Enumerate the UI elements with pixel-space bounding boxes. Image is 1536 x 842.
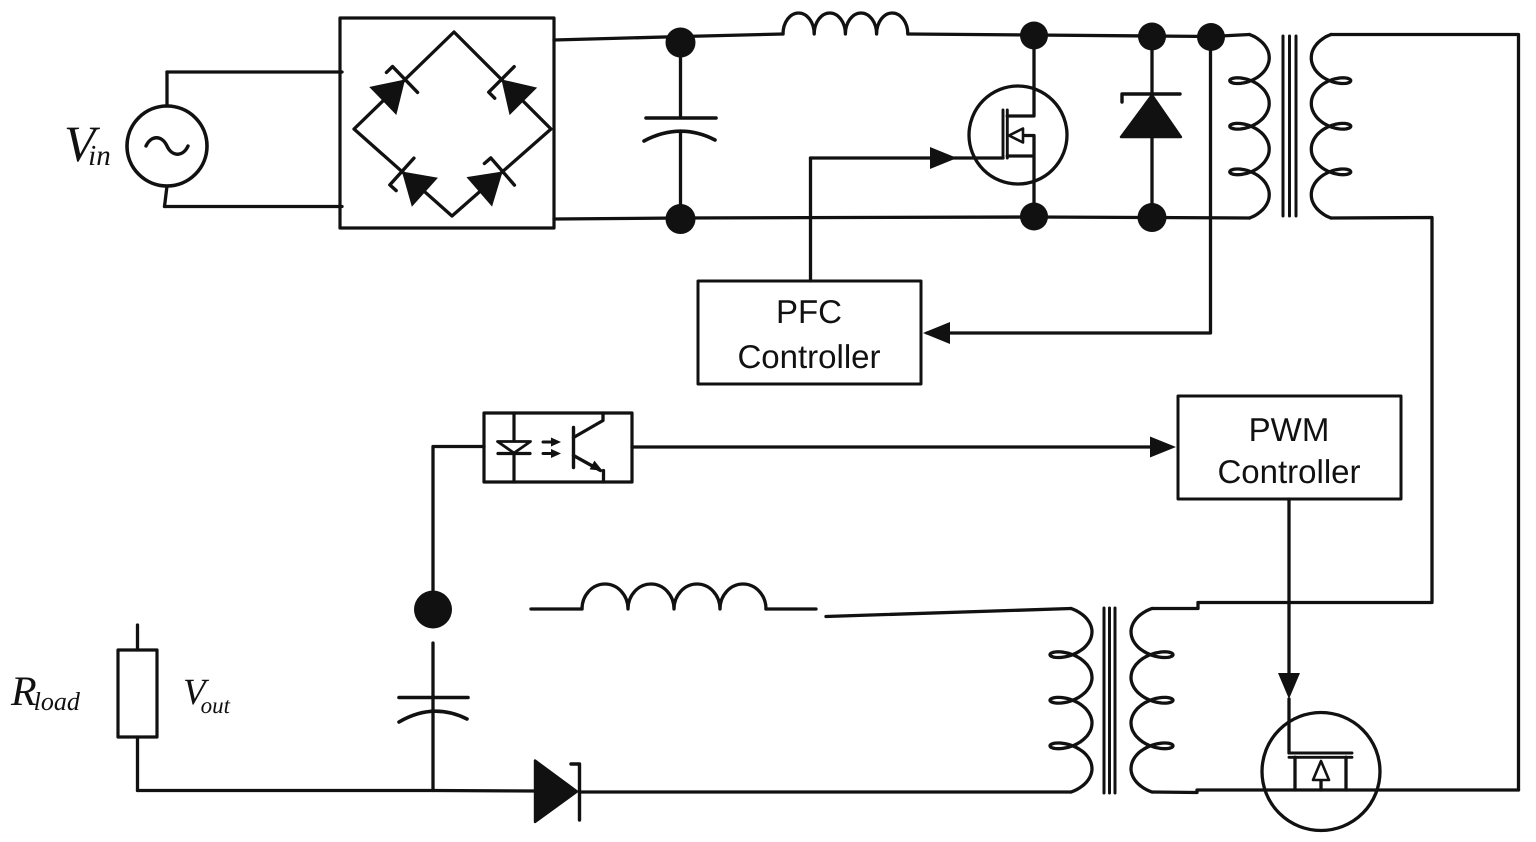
wire T1 secondary top to right edge xyxy=(1331,35,1519,791)
transformer T2 secondary winding xyxy=(1131,609,1173,793)
wire Vin to bridge bottom xyxy=(165,205,343,208)
wire node D to PFC input xyxy=(927,37,1211,334)
node H xyxy=(1138,203,1167,232)
wire bottom output rail xyxy=(138,789,537,793)
wire L1 to node B xyxy=(908,34,1034,35)
transformer T1 primary winding xyxy=(1230,35,1269,219)
arrow into PWM xyxy=(1150,437,1176,458)
svg-text:Controller: Controller xyxy=(1217,453,1360,490)
bridge diode D2 xyxy=(488,66,537,115)
node F xyxy=(666,204,696,234)
wire node C to node D xyxy=(1152,34,1211,38)
node E output xyxy=(414,591,452,629)
transformer T1 secondary winding xyxy=(1311,35,1351,219)
transformer T2 primary winding xyxy=(1050,609,1092,793)
wire sloped to T2 primary xyxy=(826,609,1071,617)
wire PWM to Q2 gate xyxy=(1287,499,1290,753)
wire node B to node C xyxy=(1034,35,1152,36)
bridge diode D1 xyxy=(369,65,418,115)
resistor Rload xyxy=(118,650,157,737)
inductor L1 xyxy=(783,13,908,34)
svg-text:Rload: Rload xyxy=(10,669,81,716)
svg-text:Vout: Vout xyxy=(183,672,231,718)
arrow PWM output xyxy=(1278,673,1300,699)
bridge diode D4 xyxy=(466,157,515,207)
PWM controller U2 xyxy=(1178,396,1401,499)
svg-text:Vin: Vin xyxy=(64,117,111,173)
bridge rectifier box xyxy=(340,18,554,228)
wire PFC to gate corner xyxy=(809,158,812,281)
wire node D to transformer T1 xyxy=(1211,35,1250,37)
voltage source Vin xyxy=(127,106,207,186)
MOSFET Q2 xyxy=(1262,713,1380,831)
gate arrow Q1 xyxy=(930,147,957,169)
bridge diode D3 xyxy=(389,157,438,207)
wire T2 right bottom to rail xyxy=(1152,790,1519,793)
capacitor C2 xyxy=(431,643,434,791)
diode D6 xyxy=(535,761,577,823)
wire gate drive Q1 xyxy=(811,156,1004,159)
MOSFET Q1 xyxy=(969,86,1067,184)
optocoupler phototransistor xyxy=(572,428,575,468)
capacitor C1 xyxy=(679,42,682,116)
transformer T1 core xyxy=(1283,36,1296,216)
svg-text:PWM: PWM xyxy=(1249,411,1330,448)
PFC controller U1 xyxy=(698,281,921,384)
bridge diamond wires xyxy=(354,32,551,216)
svg-text:PFC: PFC xyxy=(776,293,842,330)
wire opto left lead xyxy=(433,447,484,592)
node D xyxy=(1197,23,1225,51)
wire T1 secondary bottom to T2 xyxy=(1152,218,1432,609)
node C xyxy=(1138,23,1166,51)
optocoupler LED xyxy=(512,413,515,482)
wire Vin to bridge top xyxy=(167,70,342,73)
diode D5 xyxy=(1150,36,1153,218)
inductor L2 xyxy=(531,607,582,610)
wire D6 to T2 xyxy=(580,790,1071,793)
node A xyxy=(666,28,696,58)
wire opto to PWM xyxy=(632,445,1171,448)
svg-text:Controller: Controller xyxy=(737,338,880,375)
transformer T2 core xyxy=(1104,608,1115,793)
optocoupler U3 box xyxy=(484,413,632,482)
node G xyxy=(1020,203,1048,231)
wire bridge to node A xyxy=(554,37,683,41)
optocoupler light arrows xyxy=(543,442,554,454)
wire bottom rail top stage xyxy=(554,217,1250,219)
node B xyxy=(1020,22,1048,50)
arrow into PFC xyxy=(923,322,950,344)
wire node A to inductor L1 xyxy=(683,34,783,37)
